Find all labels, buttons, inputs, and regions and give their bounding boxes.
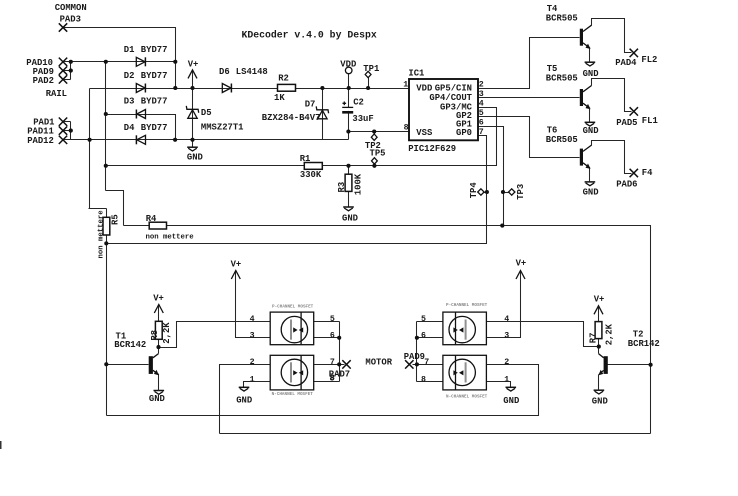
power V+ left block xyxy=(231,259,242,279)
wire pin6 TP3 vertical xyxy=(479,127,504,226)
wire pin2 to T4 base xyxy=(479,38,580,89)
wire R7 to T2 collector node xyxy=(598,339,600,347)
diode D1 xyxy=(124,45,168,66)
mosfet block pin labels left xyxy=(250,315,335,385)
power V+ R7 xyxy=(594,295,605,315)
svg-text:MOTOR: MOTOR xyxy=(365,358,392,368)
svg-text:COMMON: COMMON xyxy=(55,3,87,13)
svg-text:4: 4 xyxy=(250,315,255,324)
ground T2 xyxy=(592,390,608,406)
svg-text:TP4: TP4 xyxy=(469,182,479,199)
ground R3 xyxy=(342,207,358,224)
svg-text:TP5: TP5 xyxy=(370,148,386,158)
wire R5 jog xyxy=(89,208,107,210)
svg-text:BCR505: BCR505 xyxy=(546,74,578,84)
svg-text:V+: V+ xyxy=(594,295,605,305)
svg-text:TP3: TP3 xyxy=(516,184,526,200)
wire left block pin2 vertical xyxy=(220,365,271,434)
wire pad9 stub xyxy=(64,70,71,72)
svg-text:7: 7 xyxy=(424,358,429,367)
svg-text:LS4148: LS4148 xyxy=(236,67,268,77)
transistor T5 xyxy=(546,64,592,122)
svg-text:6: 6 xyxy=(479,119,484,128)
wire left row8 xyxy=(314,381,340,383)
wire main VDD row xyxy=(90,88,410,90)
svg-text:8: 8 xyxy=(330,374,335,383)
ground T1 xyxy=(149,391,165,404)
wire right pin4 row to R7 xyxy=(487,322,599,347)
svg-text:2: 2 xyxy=(504,358,509,367)
svg-text:GND: GND xyxy=(149,394,165,404)
svg-text:RAIL: RAIL xyxy=(46,89,67,99)
svg-text:GND: GND xyxy=(342,214,358,224)
svg-text:R7: R7 xyxy=(588,333,598,344)
svg-text:BCR142: BCR142 xyxy=(628,339,660,349)
svg-text:V+: V+ xyxy=(231,259,242,269)
diode D6 xyxy=(219,67,268,92)
svg-text:BCR142: BCR142 xyxy=(114,340,146,350)
wire T2 base xyxy=(608,364,651,366)
resistor R5 xyxy=(97,210,120,259)
capacitor C2 xyxy=(341,98,373,124)
svg-text:VDD: VDD xyxy=(340,60,356,70)
svg-text:PAD9: PAD9 xyxy=(404,352,425,362)
svg-text:GND: GND xyxy=(187,153,203,163)
svg-text:MMSZ27T1: MMSZ27T1 xyxy=(201,123,244,133)
wire right row7 to PAD9 xyxy=(413,364,443,366)
transistor T1 xyxy=(114,331,159,390)
pad X PAD5 FL1 xyxy=(616,107,658,128)
ground T4 xyxy=(583,62,599,79)
svg-text:GND: GND xyxy=(236,396,252,406)
wire right row5 xyxy=(417,321,443,323)
wire T5 collector to PAD5 xyxy=(592,79,632,112)
mosfet block pin labels right xyxy=(421,315,509,385)
wire V+ to R7 xyxy=(598,306,600,322)
svg-text:8: 8 xyxy=(404,124,409,133)
svg-text:FL1: FL1 xyxy=(642,116,658,126)
wire R5 column xyxy=(106,209,108,416)
testpoint TP2 xyxy=(365,134,381,151)
diode D2 xyxy=(124,71,168,93)
svg-text:6: 6 xyxy=(421,331,426,340)
resistor R3 xyxy=(337,173,363,195)
svg-text:3: 3 xyxy=(479,90,484,99)
svg-text:BZX284-B4V7: BZX284-B4V7 xyxy=(262,113,321,123)
wire left row5 xyxy=(314,321,340,323)
svg-text:BYD77: BYD77 xyxy=(141,45,168,55)
svg-text:4: 4 xyxy=(479,100,484,109)
svg-text:7: 7 xyxy=(330,358,335,367)
VDD terminal xyxy=(340,60,356,74)
wire R8 to left pin4 row xyxy=(159,322,271,348)
svg-text:5: 5 xyxy=(330,315,335,324)
svg-text:D2: D2 xyxy=(124,71,135,81)
zener D5 xyxy=(186,106,243,133)
wire D3 row xyxy=(106,115,176,140)
svg-text:2,2K: 2,2K xyxy=(162,322,172,344)
svg-text:BYD77: BYD77 xyxy=(141,71,168,81)
testpoint TP4 xyxy=(469,182,487,199)
resistor R1 xyxy=(300,154,323,180)
svg-text:V+: V+ xyxy=(188,59,199,69)
pad X PAD2 xyxy=(33,75,68,86)
svg-text:P-CHANNEL MOSFET: P-CHANNEL MOSFET xyxy=(446,303,488,308)
wire pad10 tie vertical xyxy=(70,62,72,80)
ground right pin1 xyxy=(503,387,519,406)
transistor T4 xyxy=(546,4,592,63)
svg-text:TP1: TP1 xyxy=(363,64,379,74)
svg-text:PIC12F629: PIC12F629 xyxy=(408,144,456,154)
svg-text:FL2: FL2 xyxy=(641,55,657,65)
svg-text:1: 1 xyxy=(250,375,255,384)
svg-text:N-CHANNEL MOSFET: N-CHANNEL MOSFET xyxy=(446,395,488,400)
wire R1 row xyxy=(106,108,497,166)
testpoint TP1 xyxy=(363,64,379,78)
svg-text:GND: GND xyxy=(503,396,519,406)
power V+ R8 xyxy=(153,293,164,313)
svg-text:D7: D7 xyxy=(305,100,316,110)
wire RAIL-A vertical xyxy=(105,62,107,191)
diode D3 xyxy=(124,97,168,119)
wire left block right bus xyxy=(339,322,341,382)
wire TP5 stub xyxy=(374,164,376,166)
wire V+ to left pin3 row xyxy=(236,271,271,338)
zener D7 xyxy=(262,100,329,124)
svg-text:T4: T4 xyxy=(547,4,558,14)
ground left pin1 xyxy=(236,387,252,405)
diode D4 xyxy=(124,123,168,145)
wire COMMON horizontal xyxy=(64,28,176,89)
svg-text:7: 7 xyxy=(479,128,484,137)
svg-text:5: 5 xyxy=(479,109,484,118)
wire TP1 stub xyxy=(368,78,370,89)
svg-text:IC1: IC1 xyxy=(408,68,424,78)
wire D7 column xyxy=(322,89,324,140)
mosfet block right N xyxy=(443,355,488,399)
wire pin3 to T5 base xyxy=(479,97,580,99)
svg-text:GND: GND xyxy=(583,69,599,79)
svg-text:BYD77: BYD77 xyxy=(141,97,168,107)
testpoint TP5 xyxy=(370,148,386,164)
pad X PAD10 xyxy=(26,58,67,68)
svg-text:PAD2: PAD2 xyxy=(33,76,54,86)
pad X PAD1 xyxy=(33,118,67,128)
pad X PAD6 F4 xyxy=(616,168,653,190)
svg-text:BCR505: BCR505 xyxy=(546,13,578,23)
wire GND rail xyxy=(63,139,349,141)
wire TP2 stub xyxy=(374,132,376,135)
pad X PAD9 xyxy=(33,66,68,77)
wire T6 collector to PAD6 xyxy=(592,141,632,174)
svg-text:P-CHANNEL MOSFET: P-CHANNEL MOSFET xyxy=(272,305,314,310)
wire V+ to R8 xyxy=(158,305,160,348)
svg-text:F4: F4 xyxy=(642,168,653,178)
wire R3 column xyxy=(348,166,350,208)
power V+ main xyxy=(188,59,199,78)
ground T5 xyxy=(583,122,599,136)
wire pad2 stub xyxy=(64,79,71,81)
svg-text:R3: R3 xyxy=(337,182,347,193)
testpoint TP3 xyxy=(504,184,526,200)
svg-text:GP5/CIN: GP5/CIN xyxy=(435,84,472,94)
svg-text:PAD5: PAD5 xyxy=(616,118,637,128)
transistor T2 xyxy=(598,330,659,391)
resistor R8 xyxy=(150,321,172,343)
wire right block left bus xyxy=(416,322,418,382)
wire rail GP1 bottom xyxy=(220,433,651,435)
svg-text:PAD4: PAD4 xyxy=(615,58,637,68)
svg-text:1K: 1K xyxy=(274,93,285,103)
resistor R2 xyxy=(274,74,296,104)
mosfet block left N xyxy=(270,355,314,397)
wire right row6 xyxy=(417,337,443,339)
svg-text:BCR505: BCR505 xyxy=(546,135,578,145)
svg-text:2: 2 xyxy=(250,358,255,367)
mosfet block right P xyxy=(443,303,488,345)
ground D5 xyxy=(187,140,203,163)
pad X PAD9 motor xyxy=(404,352,425,369)
svg-text:D5: D5 xyxy=(201,108,212,118)
svg-text:D3: D3 xyxy=(124,97,135,107)
wire pin5 to T6 base xyxy=(479,117,580,158)
svg-text:PAD6: PAD6 xyxy=(616,180,637,190)
wire left row7 to PAD7 xyxy=(314,364,345,366)
svg-text:6: 6 xyxy=(330,331,335,340)
svg-text:N-CHANNEL MOSFET: N-CHANNEL MOSFET xyxy=(272,392,314,397)
wire VDD terminal stub xyxy=(348,74,350,89)
mosfet block left P xyxy=(270,305,314,345)
pad X PAD7 xyxy=(329,360,351,383)
svg-text:R1: R1 xyxy=(300,154,311,164)
wire T4 collector to PAD4 xyxy=(592,19,632,53)
svg-text:V+: V+ xyxy=(153,293,164,303)
svg-text:VSS: VSS xyxy=(416,128,433,138)
edge artifact mark xyxy=(0,441,2,449)
svg-text:non mettere: non mettere xyxy=(146,234,195,242)
wire VSS row xyxy=(349,131,410,133)
wire V+ to right pin3 row xyxy=(487,271,521,338)
svg-text:KDecoder v.4.0 by Despx: KDecoder v.4.0 by Despx xyxy=(242,30,377,41)
svg-text:GND: GND xyxy=(592,397,608,407)
wire R4 branch xyxy=(106,191,124,226)
svg-text:GP0: GP0 xyxy=(456,128,472,138)
ground T6 xyxy=(583,182,599,198)
wire D5 column xyxy=(192,71,194,140)
pad X COMMON PAD3 xyxy=(55,3,87,32)
pad X PAD11 xyxy=(27,126,67,136)
svg-text:D6: D6 xyxy=(219,67,230,77)
wire right pin1 row xyxy=(487,382,511,388)
wire C2 column xyxy=(348,89,350,140)
svg-text:R8: R8 xyxy=(150,330,160,341)
svg-text:3: 3 xyxy=(250,331,255,340)
svg-text:5: 5 xyxy=(421,315,426,324)
wire rail GP0 bottom xyxy=(107,365,539,416)
power V+ right block xyxy=(516,259,527,280)
svg-text:3: 3 xyxy=(504,331,509,340)
resistor R7 xyxy=(588,322,614,346)
wire RAIL-B vertical xyxy=(89,89,91,209)
IC U1 box xyxy=(403,68,484,154)
svg-text:C2: C2 xyxy=(353,98,364,108)
resistor R4 xyxy=(146,214,195,242)
svg-text:R2: R2 xyxy=(278,74,289,84)
pad X PAD12 xyxy=(27,136,67,146)
svg-text:33uF: 33uF xyxy=(352,114,373,124)
wire R5 row GP0 xyxy=(107,136,487,244)
svg-text:1: 1 xyxy=(403,80,408,89)
svg-text:8: 8 xyxy=(421,375,426,384)
svg-text:2: 2 xyxy=(479,81,484,90)
svg-text:PAD3: PAD3 xyxy=(60,15,81,25)
pad X PAD4 FL2 xyxy=(615,49,657,68)
wire pad1 tie vertical xyxy=(70,122,72,140)
wire T1 base xyxy=(107,364,149,366)
svg-text:non mettere: non mettere xyxy=(97,210,105,259)
wire R4 row xyxy=(124,226,651,434)
wire left row6 xyxy=(314,337,340,339)
svg-text:R5: R5 xyxy=(110,214,120,225)
svg-text:1: 1 xyxy=(504,375,509,384)
wire left pin1 row xyxy=(244,382,271,388)
svg-text:PAD12: PAD12 xyxy=(27,136,54,146)
svg-text:330K: 330K xyxy=(300,170,322,180)
svg-text:100K: 100K xyxy=(353,173,363,195)
svg-text:V+: V+ xyxy=(516,259,527,269)
transistor T6 xyxy=(546,125,592,181)
wire D1 row xyxy=(63,61,176,63)
svg-text:D1: D1 xyxy=(124,45,135,55)
svg-text:GND: GND xyxy=(583,187,599,197)
wire pad11 stub xyxy=(64,130,71,132)
svg-text:4: 4 xyxy=(504,315,509,324)
svg-text:D4: D4 xyxy=(124,123,135,133)
svg-text:GND: GND xyxy=(583,126,599,136)
svg-text:R4: R4 xyxy=(146,214,157,224)
svg-text:BYD77: BYD77 xyxy=(141,123,168,133)
wire pad1 stub xyxy=(64,121,71,123)
wire right row8 xyxy=(417,381,443,383)
svg-text:2,2K: 2,2K xyxy=(604,323,614,345)
